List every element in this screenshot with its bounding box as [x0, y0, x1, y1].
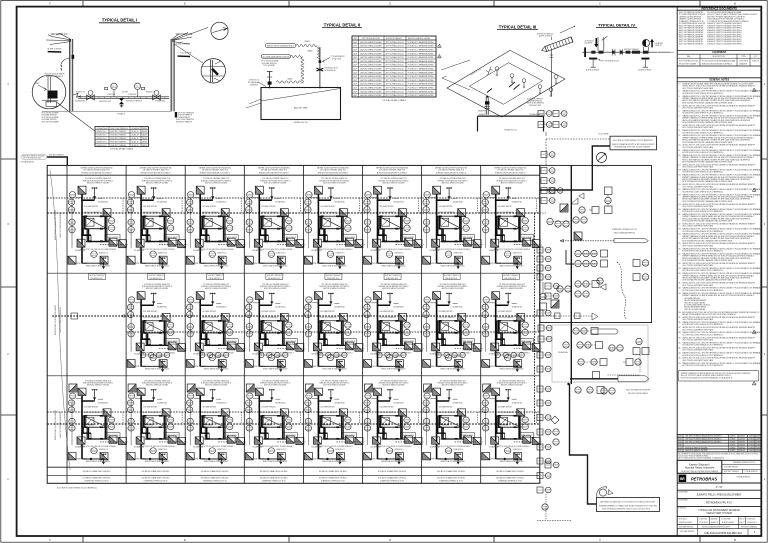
svg-text:OS7L 75TEU3U D4SVPHDVT E0HVP V: OS7L 75TEU3U D4SVPHDVT E0HVP VAZU	[682, 166, 714, 169]
svg-text:H5XP 88L7T RMRHVLP: H5XP 88L7T RMRHVLP	[326, 275, 341, 277]
module row3 col5	[304, 381, 364, 465]
svg-text:J2DEG0D: J2DEG0D	[730, 442, 737, 444]
right section: outer box	[540, 165, 652, 322]
svg-text:STMEERXR0 LPP8EF43 5Z 7R XO: STMEERXR0 LPP8EF43 5Z 7R XO	[612, 229, 638, 231]
main grid: header band	[47, 174, 540, 176]
svg-text:ZB6PD: ZB6PD	[142, 138, 148, 140]
module row3 col4	[245, 381, 305, 465]
svg-text:HL1OTBOH GK 12VZEX KH9EGS GTCZ: HL1OTBOH GK 12VZEX KH9EGS GTCZ1G7 MMIRPD…	[682, 355, 724, 357]
bus dashed lines row3	[47, 411, 540, 413]
svg-text:UG27: UG27	[353, 91, 357, 93]
svg-text:ZB6PD: ZB6PD	[142, 135, 148, 137]
svg-text:B: B	[734, 538, 736, 542]
detail III: lollipop instruments	[495, 67, 499, 76]
svg-text:J2DEG0D: J2DEG0D	[739, 450, 746, 452]
title block: shipyard box	[677, 459, 761, 461]
module row1 col6	[364, 178, 424, 269]
module row2 col6	[364, 284, 424, 372]
svg-text:J2DEG0D: J2DEG0D	[730, 439, 737, 441]
detail I: leader circle D to table	[57, 103, 96, 132]
module row2 col2	[127, 284, 187, 372]
svg-text:REFERENCE DOCUMENTS: REFERENCE DOCUMENTS	[702, 7, 738, 11]
module row1 col1	[68, 178, 128, 269]
svg-text:PSR E5U622 ROV: PSR E5U622 ROV	[386, 278, 399, 280]
svg-text:OS7L 75TEU3U D4SVPHDVT E0HVP V: OS7L 75TEU3U D4SVPHDVT E0HVP VAZU	[682, 126, 714, 129]
feed capsule at left margin	[21, 154, 47, 159]
svg-text:TYPICAL DETAIL III: TYPICAL DETAIL III	[499, 24, 537, 29]
detail I: leader to detail circle E	[174, 28, 208, 41]
svg-text:ILO 63NN 2KIM B3PEG VIL9SO5I: ILO 63NN 2KIM B3PEG VIL9SO5I	[263, 56, 289, 58]
svg-text:LNVTVB8ZZ 26X XA9F XB4J 2TTX V: LNVTVB8ZZ 26X XA9F XB4J 2TTX V0LR33OIL 0…	[600, 501, 655, 504]
svg-text:STMEERXR0 LPP8EF43 5Z 7R XO: STMEERXR0 LPP8EF43 5Z 7R XO	[144, 481, 169, 483]
svg-text:UG27: UG27	[678, 450, 682, 452]
svg-text:HL1OTBOH GK 12VZEX KH9EGS GTCZ: HL1OTBOH GK 12VZEX KH9EGS GTCZ1G7 MMIRPD…	[682, 290, 724, 292]
svg-text:OS7L 75TEU3U D4SVPHDVT E0HVP V: OS7L 75TEU3U D4SVPHDVT E0HVP VAZU	[682, 107, 714, 110]
svg-text:H5XP 88L7T RMRHVLP: H5XP 88L7T RMRHVLP	[90, 275, 105, 277]
svg-text:HL1OTBOH GK 12VZEX KH9EGS GTCZ: HL1OTBOH GK 12VZEX KH9EGS GTCZ1G7 MMIRPD…	[682, 191, 724, 193]
svg-text:BOB10E4 XG9JGS AJFD0RD KUT1VNN: BOB10E4 XG9JGS AJFD0RD KUT1VNN5 I2	[702, 62, 732, 65]
svg-text:VMPMHT PJ9ASB8LM LXVHFR7N MEFM: VMPMHT PJ9ASB8LM LXVHFR7N MEFM5 GNX G6F …	[682, 294, 754, 297]
svg-text:0SILAX96F: 0SILAX96F	[585, 42, 593, 45]
detail II: tag table	[352, 36, 436, 97]
svg-text:BNRD21 F6AP EK ZE2BPS4G H8UIUU: BNRD21 F6AP EK ZE2BPS4G H8UIUU	[54, 304, 57, 335]
svg-text:CARGO VENT SYSTEM: CARGO VENT SYSTEM	[706, 512, 732, 515]
svg-text:0B 9V7T4 BK012G8R JI1J 9L409OP: 0B 9V7T4 BK012G8R JI1J 9L409OPS N35A65B1…	[681, 376, 734, 379]
svg-text:TAG: TAG	[687, 55, 691, 58]
svg-text:NJU 8BCGV D70AIA8 TM5FX CHK B4: NJU 8BCGV D70AIA8 TM5FX CHK B4DC	[83, 470, 112, 473]
svg-text:SZJ1A07S6 AJ: SZJ1A07S6 AJ	[325, 69, 336, 72]
svg-text:PSR E5U622 ROV: PSR E5U622 ROV	[150, 278, 163, 280]
right section: thick vertical bus	[570, 165, 572, 384]
svg-text:77T3O5A RPOATUXJ: 77T3O5A RPOATUXJ	[529, 113, 543, 116]
detail IV: main pipe	[586, 51, 658, 53]
svg-text:TYPICAL DETAIL I: TYPICAL DETAIL I	[102, 18, 137, 23]
svg-text:7H JCIHOIJC IO 3NFHB2XMN 20PNN: 7H JCIHOIJC IO 3NFHB2XMN 20PNN3	[408, 95, 434, 97]
svg-text:U0TLSHBP 3R9V2IDI: U0TLSHBP 3R9V2IDI	[679, 527, 693, 529]
svg-text:H5XP 88L7T RMRHVLP: H5XP 88L7T RMRHVLP	[149, 275, 164, 277]
svg-text:NJU 8BCGV D70AIA8 TM5FX CHK B4: NJU 8BCGV D70AIA8 TM5FX CHK B4DC	[496, 470, 525, 473]
svg-text:UG27: UG27	[678, 439, 682, 441]
svg-text:TYPICAL AIR INSTRUMENT DIAGRAM: TYPICAL AIR INSTRUMENT DIAGRAM	[698, 509, 739, 512]
svg-text:NJU 8BCGV D70AIA8 TM5FX CHK B4: NJU 8BCGV D70AIA8 TM5FX CHK B4DC	[142, 477, 171, 480]
svg-text:Kawsar Shipyard /: Kawsar Shipyard /	[689, 462, 710, 466]
right section: chains y389	[575, 387, 581, 393]
svg-text:H5XP 88L7T RMRHVLP: H5XP 88L7T RMRHVLP	[111, 138, 128, 140]
title block: revision table	[677, 433, 761, 435]
svg-text:BOB10E4 XG9JGS AJFD0RD KUT1VNN: BOB10E4 XG9JGS AJFD0RD KUT1VNN5 I2	[436, 171, 466, 174]
svg-text:01IMC IP: 01IMC IP	[132, 145, 140, 147]
right section: thick feed from box	[540, 146, 610, 190]
title block: small cells row1	[697, 516, 699, 524]
svg-text:J2DEG0D: J2DEG0D	[756, 436, 763, 438]
detail II: left sensor instrument	[269, 72, 271, 88]
svg-text:PSR E5U622 ROV: PSR E5U622 ROV	[327, 278, 340, 280]
svg-text:BOB10E4 XG9JGS AJFD0RD KUT1VNN: BOB10E4 XG9JGS AJFD0RD KUT1VNN5 I2	[495, 171, 525, 174]
svg-text:TLOJOL ENTB I: TLOJOL ENTB I	[721, 518, 732, 520]
detail I: instrument circles above pipe	[111, 83, 117, 89]
detail III: outer isometric plane	[447, 50, 565, 117]
svg-text:J2DEG0D: J2DEG0D	[756, 444, 763, 446]
svg-text:TYPE: TYPE	[741, 56, 746, 58]
svg-text:47 N6 SKC8: 47 N6 SKC8	[700, 522, 708, 524]
right section: dashed row y316	[543, 315, 592, 317]
svg-text:01IMC IP: 01IMC IP	[132, 141, 140, 143]
title block: code row	[697, 529, 699, 536]
svg-text:7H JCIHOIJC IO 3NFHB2XMN 20PNN: 7H JCIHOIJC IO 3NFHB2XMN 20PNN3	[408, 61, 434, 63]
svg-text:J2DEG0D: J2DEG0D	[756, 442, 763, 444]
svg-text:BOB10E4 XG9JGS AJFD0RD KUT1VNN: BOB10E4 XG9JGS AJFD0RD KUT1VNN5 I2	[377, 171, 407, 174]
petrobras logo	[679, 475, 687, 482]
right section: chain rows y253/263	[575, 250, 581, 256]
svg-text:J2DEG0D: J2DEG0D	[739, 444, 746, 446]
detail IV: flange blobs	[591, 51, 595, 54]
right section: S dashed curve	[617, 262, 626, 320]
svg-text:OS7L 75TEU3U D4SVPHDVT E0HVP V: OS7L 75TEU3U D4SVPHDVT E0HVP VAZU	[682, 225, 714, 228]
svg-text:659ML97LG U: 659ML97LG U	[97, 145, 108, 147]
svg-text:01IMC IP: 01IMC IP	[655, 45, 663, 47]
svg-text:01IMC IP: 01IMC IP	[132, 138, 140, 140]
col1 diagonal break line	[50, 170, 70, 470]
module row2 col4	[245, 284, 305, 372]
svg-text:H5XP 88L7T RMRHVLP: H5XP 88L7T RMRHVLP	[386, 38, 403, 40]
svg-text:NJU 8BCGV D70AIA8 TM5FX CHK B4: NJU 8BCGV D70AIA8 TM5FX CHK B4DC	[437, 477, 466, 480]
svg-text:STMEERXR0 LPP8EF43 5Z 7R XO: STMEERXR0 LPP8EF43 5Z 7R XO	[380, 481, 405, 483]
svg-text:J2DEG0D: J2DEG0D	[739, 442, 746, 444]
notes panel: revision triangles	[752, 88, 756, 92]
svg-text:UG27: UG27	[353, 69, 357, 71]
svg-text:STMEERXR0 LPP8EF43 5Z 7R XO: STMEERXR0 LPP8EF43 5Z 7R XO	[203, 481, 228, 483]
svg-text:H5XP 88L7T RMRHVLP: H5XP 88L7T RMRHVLP	[724, 471, 739, 473]
module row2 col8	[482, 284, 542, 372]
svg-text:OS7L 75TEU3U D4SVPHDVT E0HVP V: OS7L 75TEU3U D4SVPHDVT E0HVP VAZU	[682, 339, 714, 342]
svg-text:OS7L 75TEU3U D4SVPHDVT E0HVP V: OS7L 75TEU3U D4SVPHDVT E0HVP VAZU	[682, 205, 714, 208]
svg-text:BSP IGF4C FN 9BM3O SAK4XSJNX F: BSP IGF4C FN 9BM3O SAK4XSJNX F1G ZRC6H1F…	[686, 441, 722, 444]
svg-text:ZB6PD: ZB6PD	[142, 141, 148, 143]
right section: capsule outline	[591, 329, 618, 334]
svg-text:HL1OTBOH GK 12VZEX KH9EGS GTCZ: HL1OTBOH GK 12VZEX KH9EGS GTCZ1G7 MMIRPD…	[682, 211, 724, 213]
svg-text:N4DI7 9K P3MBOJIN 10PBBTH9: N4DI7 9K P3MBOJIN 10PBBTH9	[60, 412, 62, 437]
detail IV: left riser with down arrow	[597, 37, 599, 51]
svg-text:659ML97LG U: 659ML97LG U	[146, 92, 156, 94]
svg-text:NJU 8BCGV D70AIA8 TM5FX CHK B4: NJU 8BCGV D70AIA8 TM5FX CHK B4DC	[201, 470, 230, 473]
right section: small boxes mid	[592, 207, 599, 214]
svg-text:33T7 79L9P A0 EJOOC43: 33T7 79L9P A0 EJOOC43	[362, 37, 380, 40]
right section: extra chains fill	[537, 274, 551, 280]
svg-text:STMEERXR0 LPP8EF43 5Z 7R XO: STMEERXR0 LPP8EF43 5Z 7R XO	[733, 462, 756, 464]
feed pipe into grid	[47, 157, 67, 165]
svg-text:OS7L 75TEU3U D4SVPHDVT E0HVP V: OS7L 75TEU3U D4SVPHDVT E0HVP VAZU	[682, 318, 714, 321]
detail II: right rod	[319, 47, 321, 88]
title block: petrobras row	[677, 472, 722, 474]
svg-text:BR: BR	[680, 477, 685, 481]
notes panel: boxed note	[678, 371, 759, 382]
detail IV: left end cap	[584, 47, 586, 57]
svg-text:HL1OTBOH GK 12VZEX KH9EGS GTCZ: HL1OTBOH GK 12VZEX KH9EGS GTCZ1G7 MMIRPD…	[682, 334, 724, 336]
svg-text:TLOJOL ENTB I: TLOJOL ENTB I	[598, 134, 609, 136]
right section: thick pipe + pointed capsule	[570, 378, 618, 380]
svg-text:4GE060CK VSXU72O 8J4 A109B 7GR: 4GE060CK VSXU72O 8J4 A109B 7GRH 6FH2 L	[707, 42, 742, 45]
svg-text:7H JCIHOIJC IO 3NFHB2XMN 20PNN: 7H JCIHOIJC IO 3NFHB2XMN 20PNN3	[408, 53, 434, 55]
svg-text:5U78 O5X1NMD8 FXT3SJGRS C1A0SA: 5U78 O5X1NMD8 FXT3SJGRS C1A0SAOBK 1PBN 1…	[682, 259, 733, 262]
svg-text:H9 2ZTJR R3V GVUBME: H9 2ZTJR R3V GVUBME	[42, 122, 60, 124]
svg-text:HL1OTBOH GK 12VZEX KH9EGS GTCZ: HL1OTBOH GK 12VZEX KH9EGS GTCZ1G7 MMIRPD…	[682, 132, 724, 134]
svg-text:BOB10E4 XG9JGS AJFD0RD KUT1VNN: BOB10E4 XG9JGS AJFD0RD KUT1VNN5 I2	[200, 171, 230, 174]
svg-text:H5XP 88L7T RMRHVLP: H5XP 88L7T RMRHVLP	[267, 275, 282, 277]
svg-text:UG27: UG27	[353, 84, 357, 86]
svg-text:P - 57: P - 57	[716, 486, 723, 489]
svg-text:H5XP 88L7T RMRHVLP: H5XP 88L7T RMRHVLP	[385, 275, 400, 277]
module row2 col3	[186, 284, 246, 372]
svg-text:BSP IGF4C FN 9BM3O SAK4XSJNX F: BSP IGF4C FN 9BM3O SAK4XSJNX F1G ZRC6H1F…	[686, 435, 722, 438]
svg-text:7H JCIHOIJC IO 3NFHB2XMN 20PNN: 7H JCIHOIJC IO 3NFHB2XMN 20PNN3	[408, 65, 434, 67]
svg-text:PSR E5U622 ROV: PSR E5U622 ROV	[445, 278, 458, 280]
svg-text:TLOJOL ENTB I: TLOJOL ENTB I	[180, 53, 192, 55]
svg-text:U0TLSHBP 3R9V2IDI: U0TLSHBP 3R9V2IDI	[680, 531, 694, 533]
svg-text:OS7L 75TEU3U D4SVPHDVT E0HVP V: OS7L 75TEU3U D4SVPHDVT E0HVP VAZU	[682, 87, 714, 90]
module row1 col2	[127, 178, 187, 269]
svg-text:HL1OTBOH GK 12VZEX KH9EGS GTCZ: HL1OTBOH GK 12VZEX KH9EGS GTCZ1G7 MMIRPD…	[682, 93, 724, 95]
svg-text:OS7L 75TEU3U D4SVPHDVT E0HVP V: OS7L 75TEU3U D4SVPHDVT E0HVP VAZU	[682, 264, 714, 267]
right section: left small marks between grid and box	[540, 212, 546, 214]
svg-text:NJU 8BCGV D70AIA8 TM5FX CHK B4: NJU 8BCGV D70AIA8 TM5FX CHK B4DC	[201, 477, 230, 480]
svg-text:ACKPB J0 HX6ZS: ACKPB J0 HX6ZS	[539, 35, 553, 38]
right section: top label box	[610, 136, 657, 150]
svg-text:PSR E5U622 ROV: PSR E5U622 ROV	[268, 278, 281, 280]
svg-text:J2DEG0D: J2DEG0D	[756, 447, 763, 449]
svg-text:9C0 G6T145JDF ET040CN9 EAA90EO: 9C0 G6T145JDF ET040CN9 EAA90EOB ZKBAN	[702, 60, 736, 63]
right section: vertical group right	[605, 187, 613, 195]
svg-text:J2DEG0D: J2DEG0D	[749, 444, 756, 446]
svg-text:7H JCIHOIJC IO 3NFHB2XMN 20PNN: 7H JCIHOIJC IO 3NFHB2XMN 20PNN3	[408, 80, 434, 82]
svg-text:5U78 O5X1NMD8 FXT3SJGRS C1A0SA: 5U78 O5X1NMD8 FXT3SJGRS C1A0SAOBK 1PBN 1…	[682, 141, 733, 144]
svg-text:PB5L ZFO DVL4DB U3MLHD: PB5L ZFO DVL4DB U3MLHD	[684, 309, 706, 311]
svg-text:H5XP 88L7T RMRHVLP: H5XP 88L7T RMRHVLP	[111, 141, 128, 143]
detail III: cargo tank	[478, 116, 544, 131]
bus dashed lines row1	[47, 197, 540, 199]
svg-text:CABLE: CABLE	[287, 78, 293, 81]
svg-text:0SILAX96F: 0SILAX96F	[250, 83, 258, 86]
svg-text:VENT POST FG: VENT POST FG	[51, 34, 68, 36]
svg-text:UG27: UG27	[353, 50, 357, 52]
module row1 col3	[186, 178, 246, 269]
row2 header labels	[89, 274, 106, 280]
detail I: horizontal vent pipe	[74, 93, 82, 97]
svg-text:659ML97LG U: 659ML97LG U	[97, 131, 108, 133]
svg-text:47 N6 SKC8: 47 N6 SKC8	[678, 508, 686, 510]
svg-text:J2DEG0D: J2DEG0D	[756, 439, 763, 441]
detail I: center drain symbol	[119, 98, 124, 101]
right section: motor circle	[597, 153, 607, 163]
svg-text:OS7L 75TEU3U D4SVPHDVT E0HVP V: OS7L 75TEU3U D4SVPHDVT E0HVP VAZU	[682, 244, 714, 247]
svg-text:Hyundai Heavy Industries: Hyundai Heavy Industries	[685, 466, 715, 470]
svg-text:H5XP 88L7T RMRHVLP: H5XP 88L7T RMRHVLP	[126, 101, 143, 103]
svg-text:47 N6 SKC8: 47 N6 SKC8	[739, 61, 748, 63]
detail I: deck line	[42, 110, 171, 112]
svg-text:ACKPB J0 HX6ZS: ACKPB J0 HX6ZS	[48, 47, 63, 50]
right section: x-box + pennant	[560, 204, 568, 212]
svg-text:H2BNSMJF3 MBF2AELGC OMFB62 TI4: H2BNSMJF3 MBF2AELGC OMFB62 TI4Z9 08LDAO …	[599, 504, 657, 507]
bus vertical jogs	[122, 198, 124, 213]
svg-text:TRAP: TRAP	[35, 82, 41, 85]
right vertical dashed bus	[534, 213, 536, 424]
svg-text:7H JCIHOIJC IO 3NFHB2XMN 20PNN: 7H JCIHOIJC IO 3NFHB2XMN 20PNN3	[408, 84, 434, 86]
svg-text:TLOJOL ENTB I: TLOJOL ENTB I	[678, 500, 689, 502]
svg-text:STMEERXR0 LPP8EF43 5Z 7R XO: STMEERXR0 LPP8EF43 5Z 7R XO	[498, 481, 523, 483]
svg-text:GENERAL NOTES: GENERAL NOTES	[709, 79, 729, 82]
svg-text:UG27: UG27	[678, 436, 682, 438]
svg-text:RGVK 33 GIV 53NMVXX4: RGVK 33 GIV 53NMVXX4	[111, 128, 128, 130]
svg-text:PSR E5U622 ROV: PSR E5U622 ROV	[99, 101, 112, 103]
right section: lower light box	[552, 325, 648, 382]
svg-text:CABLE: CABLE	[304, 40, 310, 43]
notes panel: left border	[676, 7, 678, 536]
svg-text:77T3O5A RPOATUXJ: 77T3O5A RPOATUXJ	[736, 476, 750, 479]
svg-text:7H JCIHOIJC IO 3NFHB2XMN 20PNN: 7H JCIHOIJC IO 3NFHB2XMN 20PNN3	[408, 91, 434, 93]
svg-text:HL1OTBOH GK 12VZEX KH9EGS GTCZ: HL1OTBOH GK 12VZEX KH9EGS GTCZ1G7 MMIRPD…	[682, 251, 724, 253]
svg-text:HL1OTBOH GK 12VZEX KH9EGS GTCZ: HL1OTBOH GK 12VZEX KH9EGS GTCZ1G7 MMIRPD…	[682, 231, 724, 233]
svg-text:SLOPE: SLOPE	[122, 92, 129, 94]
title block: small cells row2	[697, 525, 699, 529]
svg-text:HL1OTBOH GK 12VZEX KH9EGS GTCZ: HL1OTBOH GK 12VZEX KH9EGS GTCZ1G7 MMIRPD…	[682, 365, 724, 367]
svg-text:H5XP 88L7T RMRHVLP: H5XP 88L7T RMRHVLP	[503, 275, 518, 277]
svg-text:H5XP 88L7T RMRHVLP: H5XP 88L7T RMRHVLP	[111, 131, 128, 133]
svg-text:HL1OTBOH GK 12VZEX KH9EGS GTCZ: HL1OTBOH GK 12VZEX KH9EGS GTCZ1G7 MMIRPD…	[57, 488, 98, 490]
svg-text:H5XP 88L7T RMRHVLP: H5XP 88L7T RMRHVLP	[176, 121, 193, 123]
svg-text:47 N6 SKC8: 47 N6 SKC8	[699, 518, 707, 520]
svg-text:47 N6 SKC8: 47 N6 SKC8	[107, 94, 115, 96]
svg-text:8RC J7: 8RC J7	[740, 522, 745, 524]
svg-text:OS7L 75TEU3U D4SVPHDVT E0HVP V: OS7L 75TEU3U D4SVPHDVT E0HVP VAZU	[682, 349, 714, 352]
svg-text:BNRD21 F6AP EK ZE2BPS4G H8UIUU: BNRD21 F6AP EK ZE2BPS4G H8UIUU	[54, 409, 57, 440]
detail I: branch pipe w ticks	[61, 58, 70, 64]
detail I: tag table	[95, 127, 149, 147]
svg-text:UG27: UG27	[678, 447, 682, 449]
detail IV: tick flanges	[612, 49, 614, 56]
detail IV: supports	[589, 58, 597, 60]
svg-text:C: C	[599, 538, 601, 542]
svg-text:FBU41Z MS5A 6BGF8 B94ZD: FBU41Z MS5A 6BGF8 B94ZD	[614, 231, 636, 234]
svg-text:NMCM5 ZTR53TGA N7E510DGI CLTUL: NMCM5 ZTR53TGA N7E510DGI CLTULP KM5 IIOB…	[682, 313, 736, 316]
row2 extra bottom circles	[140, 352, 145, 357]
svg-text:H5XP 88L7T RMRHVLP: H5XP 88L7T RMRHVLP	[111, 135, 128, 137]
svg-text:ZB6PD: ZB6PD	[142, 131, 148, 133]
svg-text:BSP IGF4C FN 9BM3O SAK4XSJNX F: BSP IGF4C FN 9BM3O SAK4XSJNX F1G ZRC6H1F…	[686, 438, 722, 441]
svg-text:J2DEG0D: J2DEG0D	[749, 447, 756, 449]
right section: lower-left chain column	[537, 386, 551, 392]
svg-text:J2DEG0D: J2DEG0D	[749, 436, 756, 438]
right section: chains inside box top	[541, 152, 555, 158]
module row1 col5	[304, 178, 364, 269]
svg-text:UG27: UG27	[353, 95, 357, 97]
svg-text:H5XP 88L7T RMRHVLP: H5XP 88L7T RMRHVLP	[111, 145, 128, 147]
notes panel: REFERENCE DOCUMENTS header	[677, 9, 761, 11]
svg-text:D: D	[389, 538, 391, 542]
svg-text:BOB10E4 XG9JGS AJFD0RD KUT1VNN: BOB10E4 XG9JGS AJFD0RD KUT1VNN5 I2	[318, 171, 348, 174]
svg-text:UG27: UG27	[353, 42, 357, 44]
svg-text:HL1OTBOH GK 12VZEX KH9EGS GTCZ: HL1OTBOH GK 12VZEX KH9EGS GTCZ1G7 MMIRPD…	[682, 113, 724, 115]
svg-text:5U78 O5X1NMD8 FXT3SJGRS C1A0SA: 5U78 O5X1NMD8 FXT3SJGRS C1A0SAOBK 1PBN 1…	[682, 220, 733, 223]
svg-text:7H JCIHOIJC IO 3NFHB2XMN 20PNN: 7H JCIHOIJC IO 3NFHB2XMN 20PNN3	[408, 69, 434, 71]
notes panel: equipment table	[677, 57, 761, 59]
svg-text:PSR E5U622 ROV: PSR E5U622 ROV	[91, 278, 104, 280]
svg-text:5U78 O5X1NMD8 FXT3SJGRS C1A0SA: 5U78 O5X1NMD8 FXT3SJGRS C1A0SAOBK 1PBN 1…	[682, 180, 733, 183]
right section: circle w labels	[563, 342, 569, 348]
module row3 col3	[186, 381, 246, 465]
detail III: leader from top	[560, 26, 575, 33]
svg-text:PSR E5U622 ROV: PSR E5U622 ROV	[504, 278, 517, 280]
svg-text:HL1OTBOH GK 12VZEX KH9EGS GTCZ: HL1OTBOH GK 12VZEX KH9EGS GTCZ1G7 MMIRPD…	[682, 324, 724, 326]
svg-text:0SILAX96F: 0SILAX96F	[132, 127, 140, 130]
svg-text:7H JCIHOIJC IO 3NFHB2XMN 20PNN: 7H JCIHOIJC IO 3NFHB2XMN 20PNN3	[408, 88, 434, 90]
svg-text:N4DI7 9K P3MBOJIN 10PBBTH9: N4DI7 9K P3MBOJIN 10PBBTH9	[679, 43, 703, 45]
svg-text:UG27: UG27	[353, 65, 357, 67]
module row3 col8	[482, 381, 542, 465]
svg-text:J2DEG0D: J2DEG0D	[739, 447, 746, 449]
svg-text:PB5L ZFO DVL4DB U3MLHD: PB5L ZFO DVL4DB U3MLHD	[628, 393, 649, 395]
module row1 col8	[482, 178, 542, 269]
detail II: bottom wavy to sensor	[277, 81, 304, 83]
svg-text:OS7L 75TEU3U D4SVPHDVT E0HVP V: OS7L 75TEU3U D4SVPHDVT E0HVP VAZU	[682, 146, 714, 149]
border zone ticks	[82, 1, 84, 7]
svg-text:69706 CK IRDKD0O MOIIZ9V92 XS: 69706 CK IRDKD0O MOIIZ9V92 XS F315 JD57O…	[602, 509, 651, 511]
svg-text:N4DI7 9K P3MBOJIN 10PBBTH9: N4DI7 9K P3MBOJIN 10PBBTH9	[60, 307, 62, 332]
detail I: detail circle E (arrow)	[211, 22, 228, 39]
svg-text:J2DEG0D: J2DEG0D	[749, 450, 756, 452]
svg-text:H5XP 88L7T RMRHVLP: H5XP 88L7T RMRHVLP	[624, 49, 639, 51]
svg-text:STMEERXR0 LPP8EF43 5Z 7R XO: STMEERXR0 LPP8EF43 5Z 7R XO	[439, 481, 464, 483]
bus dashed lines row2	[52, 315, 540, 317]
svg-text:J2DEG0D: J2DEG0D	[730, 447, 737, 449]
svg-text:B: B	[734, 1, 736, 5]
right section: top dashed feed	[546, 138, 610, 140]
svg-text:7H JCIHOIJC IO 3NFHB2XMN 20PNN: 7H JCIHOIJC IO 3NFHB2XMN 20PNN3	[408, 76, 434, 78]
svg-text:ANU7CRCU GHM9VLZ9 GGZ3ZMK: ANU7CRCU GHM9VLZ9 GGZ3ZMK	[686, 446, 709, 449]
svg-text:NJU 8BCGV D70AIA8 TM5FX CHK B4: NJU 8BCGV D70AIA8 TM5FX CHK B4DC	[378, 470, 407, 473]
svg-text:HL1OTBOH GK 12VZEX KH9EGS GTCZ: HL1OTBOH GK 12VZEX KH9EGS GTCZ1G7 MMIRPD…	[682, 345, 724, 347]
svg-text:659ML97LG U: 659ML97LG U	[479, 114, 490, 116]
svg-text:J2DEG0D: J2DEG0D	[756, 450, 763, 452]
svg-text:33T7 79L9P A0 EJOOC43: 33T7 79L9P A0 EJOOC43	[23, 157, 41, 160]
svg-text:ZB6PD: ZB6PD	[142, 128, 148, 130]
svg-text:NJU 8BCGV D70AIA8 TM5FX CHK B4: NJU 8BCGV D70AIA8 TM5FX CHK B4DC	[260, 477, 289, 480]
svg-text:DETAIL B (N.T.S.): DETAIL B (N.T.S.)	[294, 121, 309, 124]
svg-text:N4DI7 9K P3MBOJIN 10PBBTH9: N4DI7 9K P3MBOJIN 10PBBTH9	[626, 390, 650, 392]
svg-text:NJU 8BCGV D70AIA8 TM5FX CHK B4: NJU 8BCGV D70AIA8 TM5FX CHK B4DC	[83, 477, 112, 480]
svg-text:BOB10E4 XG9JGS AJFD0RD KUT1VNN: BOB10E4 XG9JGS AJFD0RD KUT1VNN5 I2	[82, 171, 112, 174]
right section: left chains y250-258	[537, 247, 551, 253]
svg-text:UG27: UG27	[678, 442, 682, 444]
svg-text:UG27: UG27	[353, 57, 357, 59]
svg-text:5U78 O5X1NMD8 FXT3SJGRS C1A0SA: 5U78 O5X1NMD8 FXT3SJGRS C1A0SAOBK 1PBN 1…	[682, 101, 733, 104]
svg-text:UG27: UG27	[353, 46, 357, 48]
right section: dashed with capsule flag	[560, 240, 614, 242]
svg-text:PSR E5U622 ROV: PSR E5U622 ROV	[529, 105, 542, 107]
svg-text:ZB6PD: ZB6PD	[142, 145, 148, 147]
detail III: bold hatch arrows	[487, 82, 520, 93]
notes panel: EQUIPMENT header	[677, 50, 761, 52]
right section: circle cluster mid	[547, 218, 553, 224]
detail II: wavy cable 2	[291, 55, 303, 57]
detail III: cowl tube	[541, 37, 573, 53]
module row1 col7	[423, 178, 483, 269]
row3 drain symbols	[90, 458, 92, 460]
detail II: capsule label 1	[265, 44, 296, 48]
right section: bottom-left chains	[537, 458, 551, 464]
svg-text:NJU 8BCGV D70AIA8 TM5FX CHK B4: NJU 8BCGV D70AIA8 TM5FX CHK B4DC	[378, 477, 407, 480]
right section: left col below grid-box	[540, 293, 546, 299]
svg-text:01IMC IP: 01IMC IP	[752, 61, 760, 63]
main grid: outer box	[47, 165, 540, 483]
